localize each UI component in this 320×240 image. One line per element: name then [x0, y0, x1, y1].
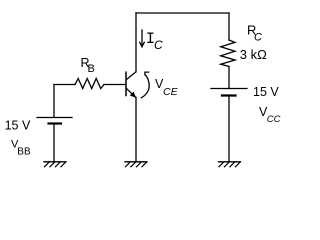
svg-text:15 V: 15 V — [253, 85, 279, 99]
svg-text:CC: CC — [267, 114, 281, 125]
svg-text:B: B — [88, 63, 95, 75]
svg-text:C: C — [254, 32, 262, 44]
svg-text:CE: CE — [163, 86, 179, 98]
svg-text:BB: BB — [17, 147, 31, 158]
svg-text:C: C — [154, 38, 163, 52]
svg-text:3 kΩ: 3 kΩ — [240, 47, 267, 62]
svg-text:15 V: 15 V — [5, 119, 31, 133]
